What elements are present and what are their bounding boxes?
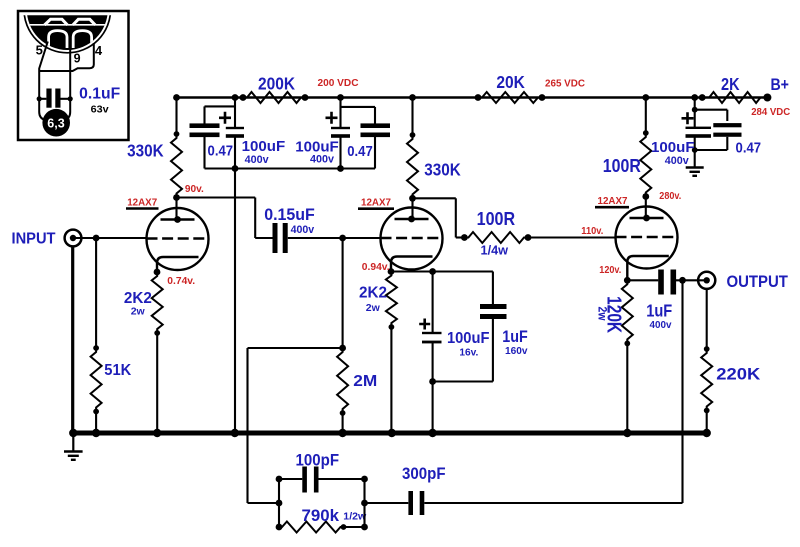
node bypass ground junction <box>428 429 436 437</box>
resistor 2K2 stage2 <box>386 272 397 434</box>
svg-text:0.47: 0.47 <box>208 143 234 160</box>
label 200K <box>258 74 295 94</box>
resistor 220K <box>701 289 712 434</box>
svg-text:1/4w: 1/4w <box>481 243 509 257</box>
svg-text:400v: 400v <box>665 155 690 167</box>
capacitor 0.1uF 63v <box>37 89 73 108</box>
triode V3 12AX7 envelope <box>616 207 678 269</box>
node INPUT label <box>12 231 56 248</box>
svg-text:330K: 330K <box>424 160 461 180</box>
label 280v <box>659 191 681 202</box>
wire V2 cathode bus <box>391 270 493 272</box>
wire feedback box left <box>276 476 283 531</box>
node cathode bypass junction <box>429 268 436 275</box>
label 120v <box>599 265 621 276</box>
svg-text:51K: 51K <box>104 362 132 379</box>
triode V2 cathode <box>388 257 433 275</box>
capacitor 0.47 no2 <box>341 107 391 169</box>
resistor 120K <box>622 280 633 433</box>
resistor R 330K stage1 <box>171 94 182 219</box>
resistor 51K <box>91 238 102 433</box>
svg-text:63v: 63v <box>91 103 109 115</box>
svg-text:12AX7: 12AX7 <box>127 196 157 208</box>
capacitor 1uF 400v output <box>658 270 707 295</box>
node 51K ground junction <box>92 429 100 437</box>
node decoupling bottom junction 2 <box>337 165 344 172</box>
capacitor 100uF 16v <box>419 272 441 434</box>
label 2K2 stage1 <box>124 290 152 318</box>
wire heater pin 4 tie to pin 5 <box>39 43 94 71</box>
svg-text:400v: 400v <box>245 154 270 166</box>
node decoupling ground junction <box>231 429 239 437</box>
svg-text:200K: 200K <box>258 74 295 94</box>
resistor R 330K stage2 <box>407 94 418 219</box>
svg-text:0.15uF: 0.15uF <box>264 205 315 224</box>
node 220K ground junction <box>703 429 711 437</box>
svg-text:2w: 2w <box>596 307 610 322</box>
resistor 2K2 stage1 <box>152 272 163 433</box>
label 330K stage1 <box>127 141 164 161</box>
label 1uF 400v <box>646 301 672 332</box>
svg-text:1uF: 1uF <box>502 328 528 346</box>
svg-text:200 VDC: 200 VDC <box>318 78 359 89</box>
node 120K ground junction <box>623 429 631 437</box>
svg-text:OUTPUT: OUTPUT <box>726 272 788 291</box>
svg-text:0.94v.: 0.94v. <box>362 262 390 273</box>
svg-text:2K2: 2K2 <box>359 285 387 302</box>
heater supply 6.3V terminal <box>42 109 70 137</box>
label 100pF <box>296 452 340 470</box>
label 0.74v <box>167 276 195 287</box>
triode V2 plate <box>395 216 429 223</box>
triode V3 cathode <box>624 256 669 284</box>
wire 100R to V3 grid <box>528 236 616 238</box>
resistor 100R quarter watt <box>461 232 531 243</box>
svg-text:12AX7: 12AX7 <box>361 197 391 209</box>
wire rail to C 100uF no1 <box>232 94 239 127</box>
label 330K stage2 <box>424 160 461 180</box>
svg-text:0.74v.: 0.74v. <box>167 276 195 287</box>
wire input jack to grid <box>73 237 147 239</box>
svg-text:2M: 2M <box>353 373 377 390</box>
node 2K2 stage1 ground junction <box>153 429 161 437</box>
label 110v <box>581 226 603 237</box>
ground symbol at input <box>64 435 83 460</box>
label 2M <box>353 373 377 390</box>
ground symbol right cap group <box>686 168 704 176</box>
label 100uF 16v <box>447 330 490 359</box>
capacitor 100uF 400v no1 <box>219 112 244 169</box>
label 300pF <box>402 465 446 483</box>
heater wiring inset box <box>18 11 129 140</box>
input jack J1 <box>65 230 82 247</box>
svg-text:2w: 2w <box>366 302 381 314</box>
svg-text:160v: 160v <box>505 345 528 357</box>
label 51K <box>104 362 132 379</box>
svg-text:16v.: 16v. <box>459 347 478 359</box>
svg-text:790k: 790k <box>302 507 340 525</box>
resistor 200K <box>240 92 309 103</box>
svg-text:400v: 400v <box>650 319 672 331</box>
svg-text:220K: 220K <box>716 366 760 384</box>
wire V1 plate to coupling cap <box>177 198 256 239</box>
node input ground junction <box>69 429 77 437</box>
node output junction <box>679 277 686 284</box>
wire feedback to output <box>681 280 683 503</box>
svg-text:5: 5 <box>36 42 43 57</box>
label 284 VDC <box>751 107 790 118</box>
svg-text:B+: B+ <box>770 75 789 94</box>
output jack J2 <box>698 272 715 289</box>
capacitor 1uF 160v <box>433 272 507 382</box>
svg-text:INPUT: INPUT <box>12 231 56 248</box>
capacitor 100uF 400v no2 <box>326 112 351 169</box>
wire feedback tap from 2M top <box>248 348 343 503</box>
svg-text:265 VDC: 265 VDC <box>545 79 585 90</box>
wire feedback box right <box>361 476 368 531</box>
label 100R horizontal <box>477 209 516 257</box>
node feedback left junction <box>276 500 283 507</box>
svg-text:6,3: 6,3 <box>47 116 64 130</box>
label 90v <box>185 184 204 195</box>
node input junction <box>93 235 100 242</box>
label 790k <box>302 507 368 525</box>
wire decoupling ground drop <box>234 169 236 434</box>
wire decoupling bottom bus <box>205 167 376 169</box>
wire heater pin 9 <box>65 47 70 120</box>
node 2K2 stage2 ground junction <box>388 429 396 437</box>
node bypass bottom junction <box>429 378 436 385</box>
wire V3 cathode to 1uF <box>627 279 658 281</box>
wire B+ supply rail <box>177 96 768 99</box>
label 2K2 stage2 <box>359 285 387 315</box>
svg-text:100R: 100R <box>477 209 516 229</box>
svg-text:100uF: 100uF <box>651 139 695 156</box>
label 1uF 160v <box>502 328 528 357</box>
capacitor 0.15uF 400v <box>255 223 381 253</box>
node decoupling bottom junction 1 <box>232 165 239 172</box>
svg-text:20K: 20K <box>496 72 525 92</box>
triode V1 12AX7 envelope <box>147 208 209 270</box>
resistor 2M <box>337 238 348 433</box>
label 0.47 no2 <box>347 143 373 160</box>
node B+ terminal <box>763 75 789 102</box>
node V2 grid junction <box>339 235 346 242</box>
svg-text:100uF: 100uF <box>447 330 490 347</box>
label 0.47 no3 <box>736 140 762 157</box>
label 100uF no2 <box>295 139 339 166</box>
label 100R vertical <box>603 156 641 176</box>
svg-text:90v.: 90v. <box>185 184 204 195</box>
svg-text:1uF: 1uF <box>646 301 672 321</box>
label 0.47 no1 <box>208 143 234 160</box>
svg-text:100uF: 100uF <box>242 138 286 155</box>
tube socket half-disc <box>27 0 108 50</box>
svg-text:280v.: 280v. <box>659 191 681 202</box>
triode V3 grid <box>616 236 678 238</box>
triode V3 plate <box>630 215 664 222</box>
label 100uF no1 <box>242 138 286 166</box>
resistor 2K <box>699 92 768 103</box>
capacitor 100pF <box>279 467 365 493</box>
label 12AX7 V1 <box>126 196 159 208</box>
label 20K <box>496 72 525 92</box>
label 220K <box>716 366 760 384</box>
svg-text:100pF: 100pF <box>296 452 340 470</box>
wire ground bus <box>72 431 707 436</box>
svg-text:400v: 400v <box>291 224 315 236</box>
wire V2 plate to 100R <box>413 198 465 237</box>
svg-text:100R: 100R <box>603 156 641 176</box>
triode V1 cathode <box>154 257 199 275</box>
svg-text:12AX7: 12AX7 <box>598 195 628 207</box>
svg-text:110v.: 110v. <box>581 226 603 237</box>
label 100uF no3 <box>651 139 695 167</box>
label 265 VDC <box>545 79 585 90</box>
svg-text:284 VDC: 284 VDC <box>751 107 790 118</box>
svg-text:300pF: 300pF <box>402 465 446 483</box>
wire input jack ground drop <box>71 246 74 433</box>
triode V2 12AX7 envelope <box>381 208 443 270</box>
wire rail to C 100uF no2 <box>337 94 344 127</box>
resistor 20K <box>475 92 546 103</box>
svg-text:330K: 330K <box>127 141 164 161</box>
svg-text:0.1uF: 0.1uF <box>79 85 120 102</box>
svg-text:0.47: 0.47 <box>347 143 373 160</box>
svg-text:0.47: 0.47 <box>736 140 762 157</box>
label 12AX7 V2 <box>358 197 394 209</box>
resistor 790k <box>279 522 365 533</box>
svg-text:120v.: 120v. <box>599 265 621 276</box>
svg-text:2K2: 2K2 <box>124 290 152 307</box>
node 2M ground junction <box>338 429 346 437</box>
wire heater pin 5 <box>39 42 48 121</box>
triode V1 plate <box>161 216 195 223</box>
svg-text:400v: 400v <box>310 154 335 166</box>
triode V2 grid <box>381 237 443 239</box>
capacitor 300pF <box>365 491 683 515</box>
tube socket outline arc <box>24 0 111 53</box>
wire rail to right cap group <box>691 94 698 127</box>
label 0.94v <box>362 262 390 273</box>
capacitor 0.47 no3 <box>695 110 742 150</box>
label 12AX7 V3 <box>595 195 629 207</box>
resistor 100R stage3 <box>640 94 651 218</box>
svg-text:9: 9 <box>74 52 81 66</box>
node OUTPUT label <box>726 272 788 291</box>
label 200 VDC <box>318 78 359 89</box>
triode V1 grid <box>147 237 209 239</box>
label 120K rotated <box>596 296 625 333</box>
capacitor 100uF 400v no3 <box>682 112 712 167</box>
svg-text:2K: 2K <box>721 74 740 94</box>
svg-text:4: 4 <box>95 43 103 58</box>
label 0.15uF <box>264 205 315 236</box>
label 2K <box>721 74 740 94</box>
svg-text:2w: 2w <box>131 306 146 318</box>
capacitor 0.47 no1 <box>190 106 236 168</box>
